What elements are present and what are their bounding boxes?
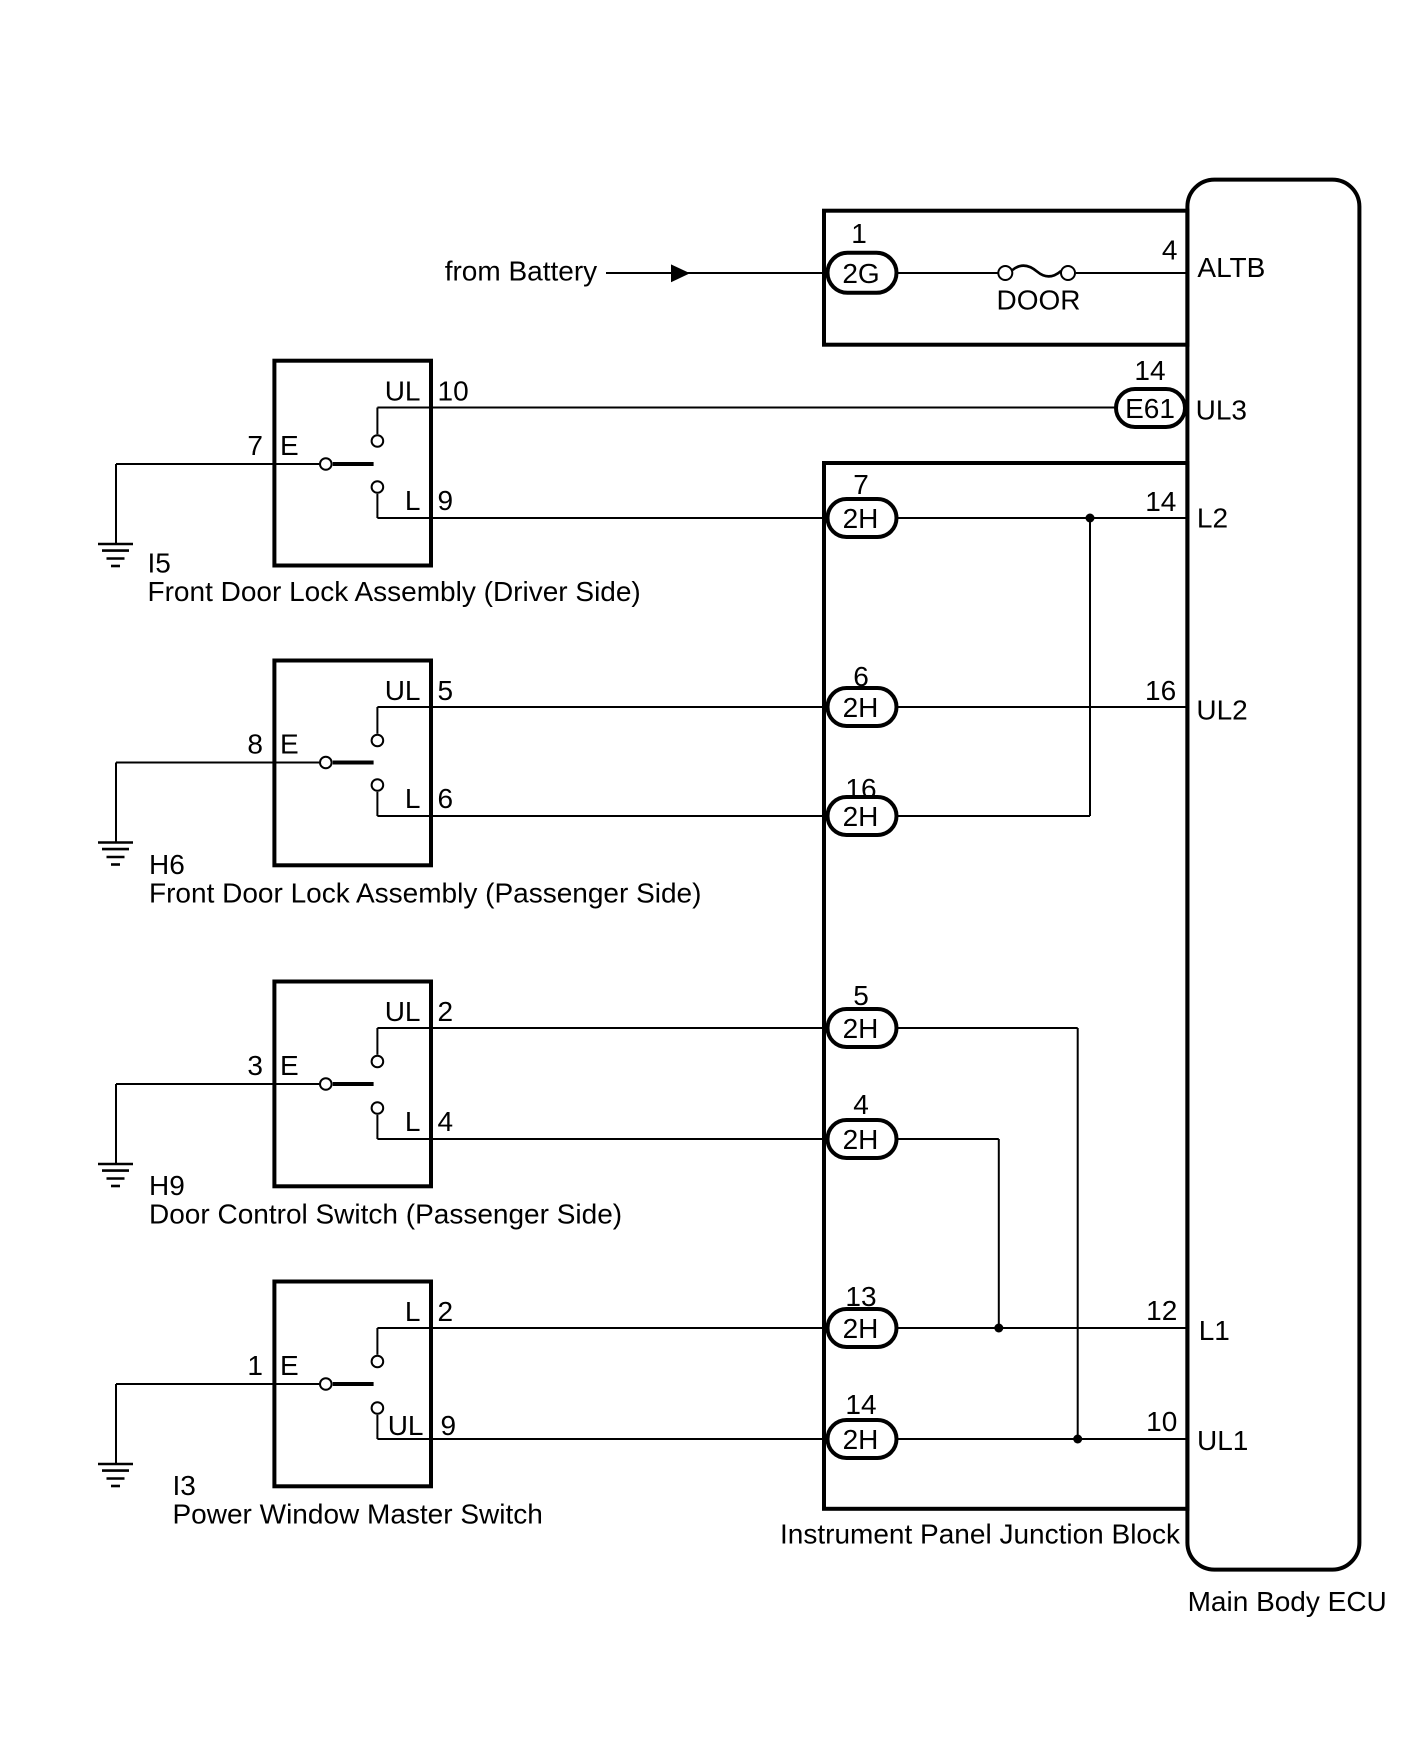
svg-text:10: 10 [438,376,469,407]
junction block: Instrument Panel Junction Block [780,463,1187,1550]
junction dot on UL1 wire [1073,1435,1082,1444]
pin labels I3 lower row [388,1410,456,1441]
svg-text:8: 8 [247,729,263,760]
svg-text:UL: UL [388,1410,424,1441]
relay block box (fuse DOOR enclosure) [824,211,1187,345]
svg-text:2H: 2H [843,503,879,534]
svg-text:Front Door Lock Assembly (Pass: Front Door Lock Assembly (Passenger Side… [149,878,701,909]
svg-text:Main Body ECU: Main Body ECU [1188,1586,1387,1617]
wire H9 L pin4 to 2H pin4 [377,1138,827,1140]
component name H9 [149,1199,622,1230]
switch pivot and lever (I3) [320,1378,374,1390]
svg-text:16: 16 [845,773,876,804]
junction dot on L1 wire [994,1324,1003,1333]
pin number 14 / net UL3 [1134,355,1247,426]
svg-text:9: 9 [438,485,454,516]
svg-text:1: 1 [851,218,867,249]
wire E pin to ground (I3) [116,1384,319,1464]
switch contact upper (H9) [372,1028,384,1067]
connector 2H (junction block pin 16) [828,797,897,835]
connector 2H (junction block pin 6) [828,688,897,726]
svg-text:L1: L1 [1199,1315,1230,1346]
pin labels H6 upper row [385,675,453,706]
switch contact lower (I3) [372,1402,384,1439]
ground symbol (H9) [98,1164,133,1186]
component ID I5 [148,548,171,579]
switch box I5 [274,361,431,566]
svg-text:H9: H9 [149,1170,185,1201]
svg-text:2H: 2H [843,1013,879,1044]
switch pivot and lever (I5) [320,458,374,470]
svg-text:Door Control Switch (Passenger: Door Control Switch (Passenger Side) [149,1199,622,1230]
wire I3 UL pin9 to 2H pin14 [377,1438,827,1440]
switch contact lower (H6) [372,779,384,816]
svg-text:5: 5 [853,980,869,1011]
svg-text:2H: 2H [843,801,879,832]
svg-text:5: 5 [438,675,454,706]
svg-text:2H: 2H [843,1313,879,1344]
fuse DOOR [997,266,1081,316]
pin number 13 (2H) [845,1281,876,1312]
svg-text:1: 1 [247,1350,263,1381]
component ID H9 [149,1170,185,1201]
svg-text:E: E [280,1350,299,1381]
ground symbol (H6) [98,843,133,865]
wire 2H pin7 to ECU pin14 (L2) [897,517,1188,519]
svg-text:2G: 2G [842,258,879,289]
component name I5 [148,576,641,607]
svg-text:L2: L2 [1197,502,1228,533]
wire I3 L pin2 to 2H pin13 [377,1327,827,1329]
svg-text:6: 6 [853,661,869,692]
svg-text:UL: UL [385,996,421,1027]
pin number 1 (2G) [851,218,867,249]
component ID I3 [173,1470,196,1501]
svg-text:I3: I3 [173,1470,196,1501]
pin labels H6 E row [247,729,298,760]
switch contact lower (I5) [372,481,384,518]
svg-text:E: E [280,430,299,461]
svg-text:L: L [405,1296,421,1327]
svg-text:UL: UL [385,675,421,706]
pin labels I3 E row [247,1350,298,1381]
pin number 14 / net L2 [1145,486,1228,533]
component name H6 [149,878,701,909]
svg-text:2H: 2H [843,692,879,723]
pin number 14 (2H) [845,1389,876,1420]
svg-text:4: 4 [853,1089,869,1120]
connector 2H (junction block pin 14) [828,1420,897,1458]
svg-text:UL1: UL1 [1197,1425,1248,1456]
svg-text:6: 6 [438,783,454,814]
pin labels H9 upper row [385,996,453,1027]
svg-text:14: 14 [845,1389,876,1420]
svg-text:4: 4 [1162,235,1178,266]
pin labels H9 lower row [405,1106,453,1137]
ground symbol (I5) [98,544,133,566]
svg-text:I5: I5 [148,548,171,579]
pin number 16 (2H) [845,773,876,804]
switch box I3 [274,1282,431,1487]
wire 2H pin13 to ECU pin12 (L1) [897,1327,1188,1329]
svg-text:E: E [280,1050,299,1081]
wire 2H pin4 to L1 branch [897,1139,999,1328]
svg-text:12: 12 [1146,1295,1177,1326]
svg-text:UL3: UL3 [1196,395,1247,426]
connector 2H (junction block pin 7) [828,499,897,537]
pin labels I5 E row [247,430,298,461]
svg-text:13: 13 [845,1281,876,1312]
pin number 6 (2H) [853,661,869,692]
svg-text:7: 7 [247,430,263,461]
svg-text:L: L [405,1106,421,1137]
wire 2H pin5 to UL1 branch [897,1028,1078,1439]
wire H9 UL pin2 to 2H pin5 [377,1027,827,1029]
connector 2H (junction block pin 4) [828,1120,897,1158]
connector 2H (junction block pin 13) [828,1309,897,1347]
svg-text:ALTB: ALTB [1197,252,1265,283]
svg-text:E61: E61 [1125,393,1175,424]
junction dot on L2 wire [1086,514,1095,523]
switch contact upper (I3) [372,1328,384,1367]
connector 2G (pin 1) [828,253,897,293]
svg-text:4: 4 [438,1106,454,1137]
svg-text:H6: H6 [149,849,185,880]
wire I5 UL pin10 to connector E61 [377,407,1116,409]
wire 2H pin14 to ECU pin10 (UL1) [897,1438,1188,1440]
ground symbol (I3) [98,1464,133,1486]
wire from battery to connector 2G [606,272,824,274]
wire 2H pin6 to ECU pin16 (UL2) [897,706,1188,708]
wire I5 L pin9 to 2H pin7 [377,517,827,519]
connector E61 (pin 14) [1116,389,1185,427]
wire E pin to ground (I5) [116,464,319,544]
pin number 10 / net UL1 [1146,1406,1248,1456]
svg-text:2: 2 [438,996,454,1027]
wire E pin to ground (H9) [116,1084,319,1164]
pin labels I5 upper row [385,376,469,407]
svg-text:Instrument Panel Junction Bloc: Instrument Panel Junction Block [780,1519,1181,1550]
pin labels I5 lower row [405,485,453,516]
switch contact upper (H6) [372,707,384,746]
svg-text:UL2: UL2 [1196,694,1247,725]
switch contact lower (H9) [372,1102,384,1139]
pin number 4 / net ALTB [1162,235,1266,284]
pin number 7 (2H) [853,469,869,500]
pin labels H9 E row [247,1050,298,1081]
component name I3 [173,1499,543,1530]
wire 2H pin16 to L2 branch [897,518,1091,816]
pin number 4 (2H) [853,1089,869,1120]
svg-text:2H: 2H [843,1124,879,1155]
switch pivot and lever (H9) [320,1078,374,1090]
svg-text:E: E [280,729,299,760]
svg-text:14: 14 [1145,486,1176,517]
switch contact upper (I5) [372,408,384,447]
svg-text:7: 7 [853,469,869,500]
svg-text:from Battery: from Battery [445,255,597,286]
svg-text:L: L [405,783,421,814]
svg-text:UL: UL [385,376,421,407]
arrowhead on battery wire [671,264,690,282]
pin number 5 (2H) [853,980,869,1011]
svg-text:L: L [405,485,421,516]
svg-text:Front Door Lock Assembly (Driv: Front Door Lock Assembly (Driver Side) [148,576,641,607]
svg-text:14: 14 [1134,355,1165,386]
switch box H9 [274,982,431,1187]
svg-text:3: 3 [247,1050,263,1081]
svg-text:10: 10 [1146,1406,1177,1437]
node: from Battery label [445,255,597,286]
component ID H6 [149,849,185,880]
svg-text:16: 16 [1145,675,1176,706]
wire H6 UL pin5 to 2H pin6 [377,706,827,708]
switch pivot and lever (H6) [320,757,374,769]
wire H6 L pin6 to 2H pin16 [377,815,827,817]
pin labels I3 upper row [405,1296,453,1327]
pin number 16 / net UL2 [1145,675,1248,725]
svg-text:2H: 2H [843,1424,879,1455]
pin number 12 / net L1 [1146,1295,1230,1346]
svg-text:DOOR: DOOR [997,285,1081,316]
svg-text:Power Window Master Switch: Power Window Master Switch [173,1499,543,1530]
switch box H6 [274,661,431,866]
wire 2G to fuse DOOR [897,272,999,274]
ECU block: Main Body ECU [1187,180,1386,1617]
svg-text:9: 9 [441,1410,457,1441]
connector 2H (junction block pin 5) [828,1009,897,1047]
pin labels H6 lower row [405,783,453,814]
wire fuse to ECU pin 4 (ALTB) [1076,272,1187,274]
wire E pin to ground (H6) [116,763,319,843]
svg-text:2: 2 [438,1296,454,1327]
